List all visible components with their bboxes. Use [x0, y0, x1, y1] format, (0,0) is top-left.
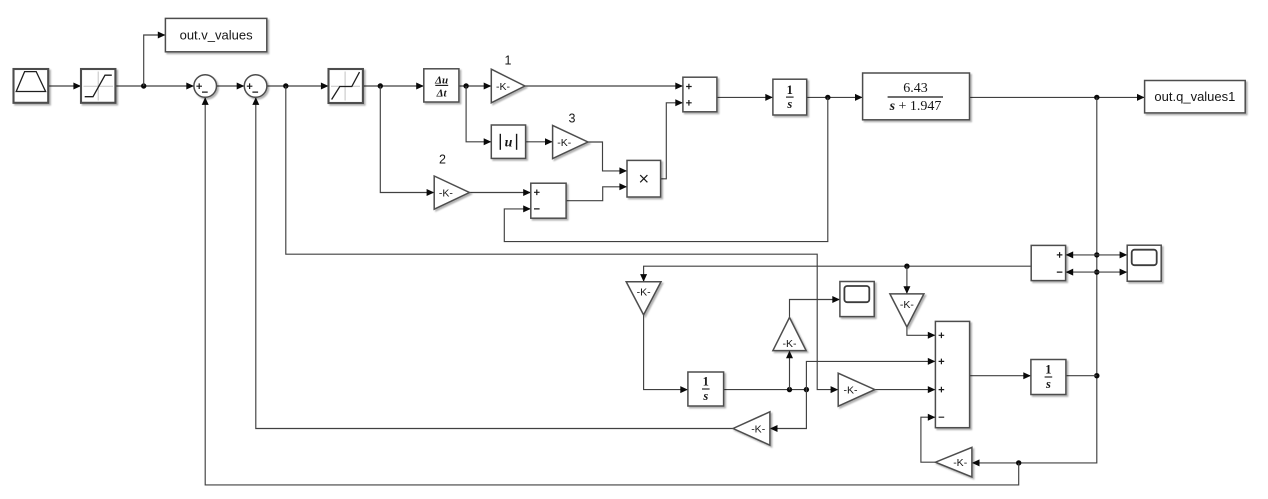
svg-text:3: 3 [569, 112, 576, 126]
svg-text:-K-: -K- [439, 187, 454, 199]
svg-text:1: 1 [787, 83, 793, 97]
integrator 1 block 1/s [773, 79, 807, 115]
svg-text:s: s [1045, 377, 1051, 391]
svg-text:Δu: Δu [434, 75, 448, 87]
wire: sum B output to product input 2 [566, 183, 627, 200]
wire: down gain 2 to big sum input 1 [907, 327, 936, 339]
svg-text:-K-: -K- [751, 423, 766, 435]
out.v_values block [165, 18, 266, 51]
wire: bottom feedback to sum S1 [202, 97, 1019, 485]
wire: abs to gain 3 [526, 138, 553, 145]
signal source block (trapezoid wave) [14, 69, 49, 103]
svg-text:-K-: -K- [496, 81, 511, 93]
wire: down gain 1 to integrator 2 [644, 315, 688, 393]
wire: sum S1 to sum S2 [217, 83, 245, 90]
svg-text:1: 1 [703, 375, 709, 389]
wire: q to flipped sum plus and scope S2 top [1066, 251, 1128, 258]
flipped sum block (inputs on right) [1031, 245, 1065, 280]
svg-text:-K-: -K- [953, 457, 968, 469]
scope S1 block [840, 282, 874, 317]
junction: node after rate limiter [378, 83, 383, 88]
wire: up into up gain [786, 351, 793, 390]
wire: q to flipped sum minus and scope S2 bottom [1066, 269, 1128, 276]
gain G3 (-K-) [553, 125, 588, 158]
wire: source to saturation [48, 83, 81, 90]
svg-text:-K-: -K- [844, 384, 859, 396]
svg-text:out.v_values: out.v_values [180, 28, 253, 43]
integrator 2 block 1/s [688, 372, 724, 406]
svg-text:s: s [786, 97, 792, 111]
svg-text:-K-: -K- [900, 299, 915, 311]
wire: branch up to out.v_values [144, 32, 166, 87]
wire: up to big sum input 2 [806, 358, 935, 390]
up gain U1 (-K-) [773, 317, 806, 350]
sum B block (plus minus) [531, 183, 566, 218]
sum A block (plus plus) [683, 77, 717, 112]
wire: integrator 3 to q line [1066, 375, 1097, 377]
svg-text:out.q_values1: out.q_values1 [1154, 89, 1235, 104]
junction: node after integrator 1 [825, 95, 830, 100]
wire: product to sum A input 2 [661, 99, 683, 179]
svg-text:Δt: Δt [436, 88, 448, 100]
wire: right gain to big sum input 3 [875, 386, 936, 393]
svg-text:-K-: -K- [557, 137, 572, 149]
junction: q line at minus wire [1094, 269, 1099, 274]
junction: q line at integrator 3 output [1094, 373, 1099, 378]
wire: sum S2 to rate limiter [267, 83, 329, 90]
wire: gain 1 to sum A input 1 [525, 83, 683, 90]
wire: saturation to sum S1 [115, 83, 193, 90]
wire: integrator 2 output [724, 389, 807, 391]
wire: big sum to integrator 3 [970, 372, 1031, 379]
out.q_values1 block [1145, 81, 1246, 113]
wire: node after S2 down and across to right gain [286, 86, 838, 393]
wire: sum A to integrator 1 [717, 94, 773, 101]
svg-text:s: s [702, 389, 708, 403]
transfer function block 6.43/(s+1.947) [863, 73, 970, 120]
sum S2 circle [244, 75, 267, 98]
svg-text:u: u [505, 135, 513, 150]
wire: gain 2 to sum B plus input [469, 189, 530, 196]
wire: rate limiter to du/dt [363, 83, 424, 90]
sum S1 circle [194, 75, 217, 98]
gain G2 (-K-) [434, 176, 469, 209]
junction: q line at plus wire [1094, 252, 1099, 257]
junction: integrator 2 output node 2 [804, 387, 809, 392]
junction: v branch [141, 83, 146, 88]
wire: main q vertical down to bottom-right gain [972, 97, 1097, 466]
gain G1 (-K-) [491, 69, 525, 103]
wire: integrator 1 to transfer fcn [807, 94, 863, 101]
integrator 3 block 1/s [1031, 360, 1066, 395]
big sum block (+ + + -) [935, 321, 969, 427]
wire: du/dt to gain 1 [459, 83, 491, 90]
junction: branch to down gain 2 [904, 264, 909, 269]
wire: branch into down gain 2 [903, 266, 910, 294]
svg-text:1: 1 [505, 54, 512, 68]
wire: up gain to scope S1 [790, 296, 840, 317]
svg-text:6.43: 6.43 [903, 81, 928, 96]
wire: flipped sum output left to down gain 1 [640, 266, 1031, 282]
wire: feedback to sum B minus input [504, 97, 828, 241]
junction: node q [1094, 95, 1099, 100]
wire: branch down to gain 2 [380, 86, 434, 196]
product block [627, 160, 661, 197]
down gain D2 (-K-) [890, 294, 924, 327]
svg-text:-K-: -K- [783, 338, 798, 350]
svg-text:s + 1.947: s + 1.947 [889, 99, 942, 114]
svg-text:1: 1 [1045, 363, 1051, 377]
wire: bottom-right gain to big sum minus input [921, 414, 936, 463]
junction: node after du/dt [463, 83, 468, 88]
saturation block [81, 69, 115, 103]
derivative du/dt block [424, 69, 459, 102]
wire: branch down to abs block [466, 86, 491, 145]
wire: gain 3 to product input 1 [588, 142, 627, 174]
svg-text:2: 2 [439, 153, 446, 167]
rate limiter block [329, 69, 363, 103]
abs block |u| [491, 125, 525, 158]
wire: left gain feedback to sum S2 [252, 97, 733, 428]
bottom-right left gain L2 (-K-) [935, 447, 972, 477]
scope S2 block (two inputs) [1127, 245, 1161, 281]
junction: bottom right corner node [1016, 460, 1021, 465]
junction: integrator 2 output node 1 [787, 387, 792, 392]
left gain L1 (-K-) [733, 412, 770, 445]
junction: node after S2 [283, 83, 288, 88]
wire: transfer fcn to out.q_values1 [970, 94, 1145, 101]
down gain D1 (-K-) [626, 282, 661, 315]
right gain R1 (-K-) [838, 373, 875, 406]
wire: down to left gain [770, 390, 807, 432]
svg-text:-K-: -K- [637, 287, 652, 299]
